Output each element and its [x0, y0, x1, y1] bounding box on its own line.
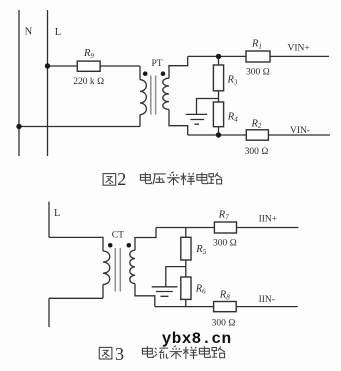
svg-text:300 Ω: 300 Ω — [212, 319, 236, 329]
svg-text:300 Ω: 300 Ω — [246, 68, 270, 78]
svg-text:IIN+: IIN+ — [259, 214, 278, 224]
svg-text:220 k Ω: 220 k Ω — [73, 77, 104, 87]
svg-text:VIN+: VIN+ — [288, 44, 310, 54]
svg-text:2: 2 — [117, 169, 126, 189]
svg-text:IIN-: IIN- — [259, 295, 275, 305]
svg-text:PT: PT — [152, 59, 163, 69]
svg-text:ybx8.cn: ybx8.cn — [162, 330, 232, 348]
svg-text:300 Ω: 300 Ω — [245, 147, 269, 157]
svg-text:L: L — [54, 208, 60, 219]
svg-text:3: 3 — [115, 344, 124, 364]
svg-text:300 Ω: 300 Ω — [213, 239, 237, 249]
svg-text:N: N — [25, 27, 33, 38]
svg-text:CT: CT — [112, 230, 124, 240]
svg-text:L: L — [55, 27, 61, 38]
svg-text:VIN-: VIN- — [290, 126, 310, 136]
